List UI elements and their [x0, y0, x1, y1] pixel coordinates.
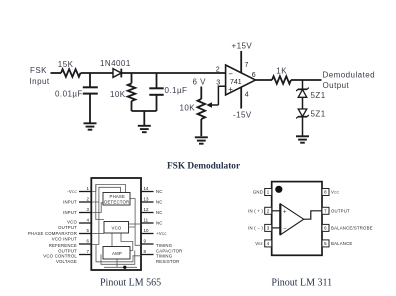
LM311 pin 2 — [248, 207, 272, 214]
capacitor C2 0.1uF — [149, 73, 163, 111]
svg-text:NC: NC — [156, 189, 163, 194]
LM311 pin 5 — [322, 240, 352, 247]
capacitor C1 0.01uF — [83, 73, 98, 123]
zener diode Z1 5Z1 — [296, 88, 309, 98]
svg-text:IN ( − ): IN ( − ) — [248, 226, 263, 231]
svg-text:7: 7 — [87, 249, 90, 254]
wire opamp out to R4 — [256, 79, 273, 81]
LM565 pin 9 — [141, 239, 182, 254]
LM311 pin 1 — [253, 189, 272, 196]
svg-text:10K: 10K — [110, 90, 126, 99]
svg-text:NC: NC — [156, 210, 163, 215]
resistor R2 10K — [128, 73, 136, 111]
svg-text:BALANCE/STROBE: BALANCE/STROBE — [331, 226, 373, 231]
zener diode Z2 5Z1 — [296, 109, 309, 118]
wire pin3 to triangle — [272, 227, 281, 229]
svg-text:FSK: FSK — [30, 66, 47, 75]
svg-text:PHASE COMPARATOR: PHASE COMPARATOR — [28, 231, 77, 236]
block VCO — [104, 222, 129, 234]
svg-text:TIMING: TIMING — [156, 243, 173, 248]
svg-text:8: 8 — [144, 249, 147, 254]
node Demodulated Output — [323, 71, 376, 91]
junction dot LM565 bottom — [123, 266, 126, 269]
svg-text:1N4001: 1N4001 — [100, 59, 131, 68]
svg-text:0.1µF: 0.1µF — [165, 86, 188, 95]
svg-text:10: 10 — [144, 228, 149, 233]
svg-text:10K: 10K — [180, 104, 196, 113]
IC U3 LM311 body — [272, 182, 322, 256]
svg-text:2: 2 — [216, 67, 220, 74]
svg-text:5Z1: 5Z1 — [311, 110, 326, 119]
svg-text:OUTPUT: OUTPUT — [331, 209, 350, 214]
svg-text:VCO: VCO — [67, 219, 77, 224]
svg-text:BALANCE: BALANCE — [331, 241, 352, 246]
svg-text:-VCC: -VCC — [67, 189, 77, 194]
potentiometer R3 10K — [198, 87, 206, 137]
op-amp U1 741 — [226, 65, 256, 95]
LM311 pin 3 — [248, 224, 272, 231]
LM565 pin 10 — [141, 228, 167, 236]
svg-text:2: 2 — [87, 197, 90, 202]
wire -15V supply — [240, 87, 242, 108]
ground G3 — [195, 137, 208, 143]
svg-text:0.01µF: 0.01µF — [55, 90, 83, 99]
wire input to R1 — [51, 72, 62, 74]
svg-text:3: 3 — [87, 207, 90, 212]
svg-text:Input: Input — [30, 77, 50, 86]
svg-text:14: 14 — [144, 186, 149, 191]
svg-text:1K: 1K — [276, 66, 287, 75]
svg-text:11: 11 — [144, 218, 149, 223]
svg-text:REFERENCE: REFERENCE — [49, 243, 77, 248]
svg-text:Demodulated: Demodulated — [323, 71, 376, 80]
LM565 pin 8 — [141, 249, 180, 264]
wire ground stem — [143, 111, 145, 125]
svg-text:OUTPUT: OUTPUT — [58, 225, 77, 230]
LM311 pin 7 — [322, 207, 350, 214]
svg-text:VCO INPUT: VCO INPUT — [52, 237, 77, 242]
svg-text:DETECTOR: DETECTOR — [104, 199, 129, 204]
svg-text:+: + — [283, 210, 287, 216]
svg-text:IN ( + ): IN ( + ) — [248, 209, 263, 214]
svg-text:1: 1 — [87, 186, 90, 191]
svg-text:VCO: VCO — [112, 226, 122, 231]
svg-text:+: + — [228, 85, 233, 94]
svg-text:VOLTAGE: VOLTAGE — [56, 259, 77, 264]
wire pin2 to triangle — [272, 210, 281, 212]
LM311 pin 4 — [255, 240, 271, 247]
svg-text:3: 3 — [216, 80, 220, 87]
svg-text:AMP: AMP — [112, 251, 122, 256]
svg-text:RESISTOR: RESISTOR — [156, 259, 180, 264]
svg-text:−: − — [228, 69, 233, 78]
LM565 pin 14 — [141, 186, 163, 194]
svg-text:NC: NC — [156, 200, 163, 205]
svg-text:5: 5 — [87, 228, 90, 233]
pin1 marker dot — [275, 186, 282, 193]
wire R4 to output — [291, 79, 322, 81]
wiper arrow of R3 — [206, 102, 218, 107]
LM565 pin 1 — [67, 186, 91, 194]
LM311 pin 8 — [322, 189, 340, 196]
LM311 pin 6 — [322, 224, 373, 231]
LM565 pin 5 — [28, 228, 91, 242]
ground G2 — [138, 126, 151, 132]
LM565 pin 12 — [141, 207, 163, 215]
svg-text:NC: NC — [156, 221, 163, 226]
LM565 pin 4 — [58, 218, 91, 230]
svg-text:Output: Output — [323, 81, 350, 90]
IC U2 LM565 body — [91, 178, 141, 270]
LM565 pin 6 — [49, 239, 92, 254]
svg-text:GND: GND — [253, 190, 263, 195]
svg-text:7: 7 — [245, 62, 249, 69]
LM565 pin 11 — [141, 218, 163, 226]
svg-text:12: 12 — [144, 207, 149, 212]
resistor R4 1K — [272, 76, 291, 84]
wire R1 to diode — [81, 72, 114, 74]
svg-text:VCC: VCC — [331, 190, 340, 195]
svg-text:4: 4 — [245, 92, 249, 99]
LM565 internal wiring — [92, 185, 141, 268]
svg-text:5Z1: 5Z1 — [311, 91, 326, 100]
wire zener tap — [302, 80, 304, 89]
svg-text:TIMING: TIMING — [156, 254, 173, 259]
svg-text:INPUT: INPUT — [63, 200, 77, 205]
wire Z2 to ground — [302, 117, 304, 136]
comparator triangle U3 — [280, 204, 303, 235]
wire pin3 to wiper — [218, 86, 225, 105]
resistor R1 15K — [61, 69, 81, 77]
LM565 pin 13 — [141, 197, 163, 205]
diode D1 1N4001 — [113, 69, 121, 78]
svg-text:INPUT: INPUT — [63, 210, 77, 215]
svg-text:13: 13 — [144, 197, 149, 202]
svg-text:6: 6 — [87, 239, 90, 244]
svg-text:6 V: 6 V — [193, 78, 207, 87]
svg-text:9: 9 — [144, 239, 147, 244]
wire triangle output to pin7 — [304, 211, 322, 219]
LM565 pin 3 — [63, 207, 91, 215]
svg-text:Pinout LM 311: Pinout LM 311 — [271, 278, 332, 289]
svg-text:Pinout LM 565: Pinout LM 565 — [100, 278, 161, 289]
svg-text:PHASE: PHASE — [110, 194, 126, 199]
ground G1 — [84, 123, 97, 129]
LM565 pin 2 — [63, 197, 91, 205]
svg-text:-15V: -15V — [233, 111, 252, 120]
node FSK Input label — [30, 66, 50, 86]
svg-text:15K: 15K — [58, 60, 74, 69]
LM565 pin 7 — [43, 249, 91, 264]
svg-text:6: 6 — [252, 72, 256, 79]
svg-text:+VCC: +VCC — [156, 231, 167, 236]
wire bottom rail R2/C2 — [132, 110, 157, 112]
svg-text:−: − — [283, 227, 287, 233]
svg-text:FSK Demodulator: FSK Demodulator — [167, 162, 240, 172]
block PHASE DETECTOR — [103, 193, 130, 206]
wire +15V supply — [240, 51, 242, 73]
wire Z1 to Z2 — [302, 97, 304, 109]
block AMP — [103, 247, 130, 260]
svg-text:VEE: VEE — [255, 241, 263, 246]
wire diode to opamp pin2 — [121, 72, 225, 74]
svg-text:+15V: +15V — [232, 42, 253, 51]
svg-text:4: 4 — [87, 218, 90, 223]
ground G4 — [296, 136, 309, 142]
svg-text:VCO CONTROL: VCO CONTROL — [43, 254, 77, 259]
